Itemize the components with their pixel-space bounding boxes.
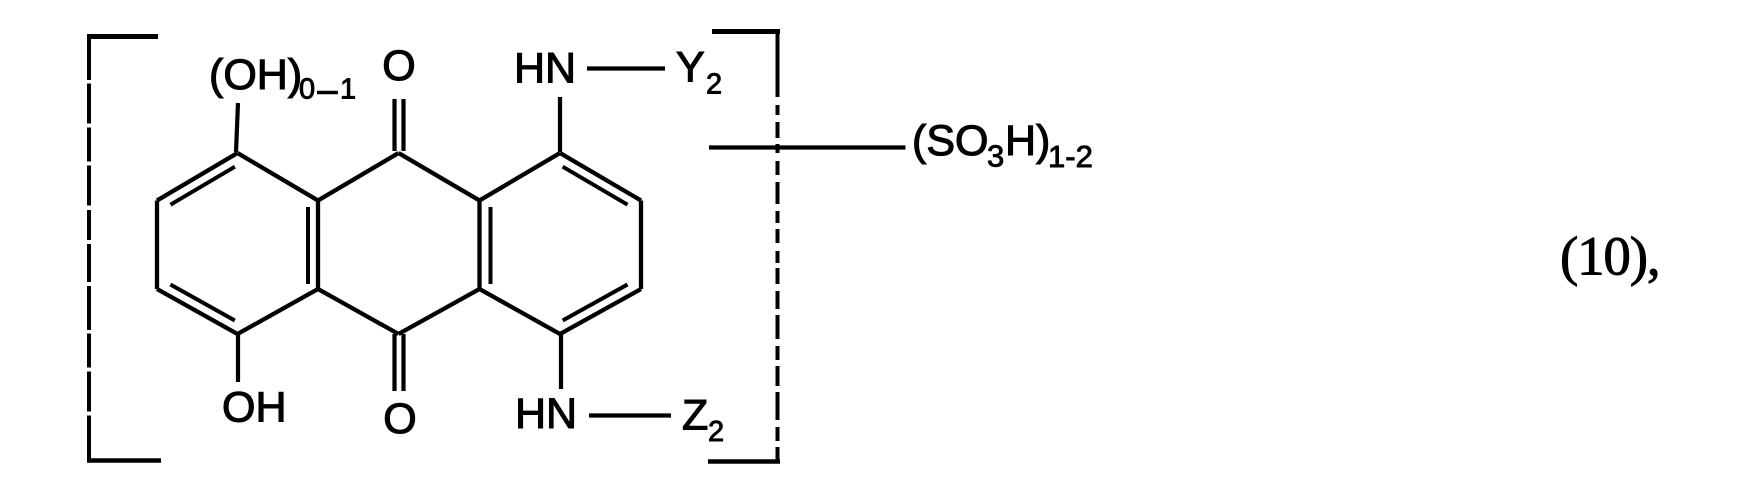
- svg-text:O: O: [382, 42, 415, 90]
- svg-text:Y: Y: [676, 44, 705, 92]
- svg-text:(SO: (SO: [912, 117, 988, 165]
- svg-text:1-2: 1-2: [1048, 139, 1093, 174]
- svg-text:OH: OH: [222, 384, 287, 432]
- svg-text:(10),: (10),: [1560, 226, 1659, 287]
- svg-text:H): H): [1005, 117, 1050, 165]
- svg-text:O: O: [383, 395, 416, 443]
- svg-text:0: 0: [299, 74, 315, 106]
- svg-text:2: 2: [708, 416, 724, 448]
- svg-text:HN: HN: [515, 390, 577, 438]
- svg-text:1: 1: [340, 74, 356, 106]
- svg-text:HN: HN: [514, 45, 576, 93]
- svg-text:2: 2: [706, 69, 722, 101]
- svg-text:Z: Z: [682, 392, 708, 440]
- svg-text:(OH): (OH): [209, 51, 302, 99]
- svg-text:3: 3: [987, 139, 1004, 174]
